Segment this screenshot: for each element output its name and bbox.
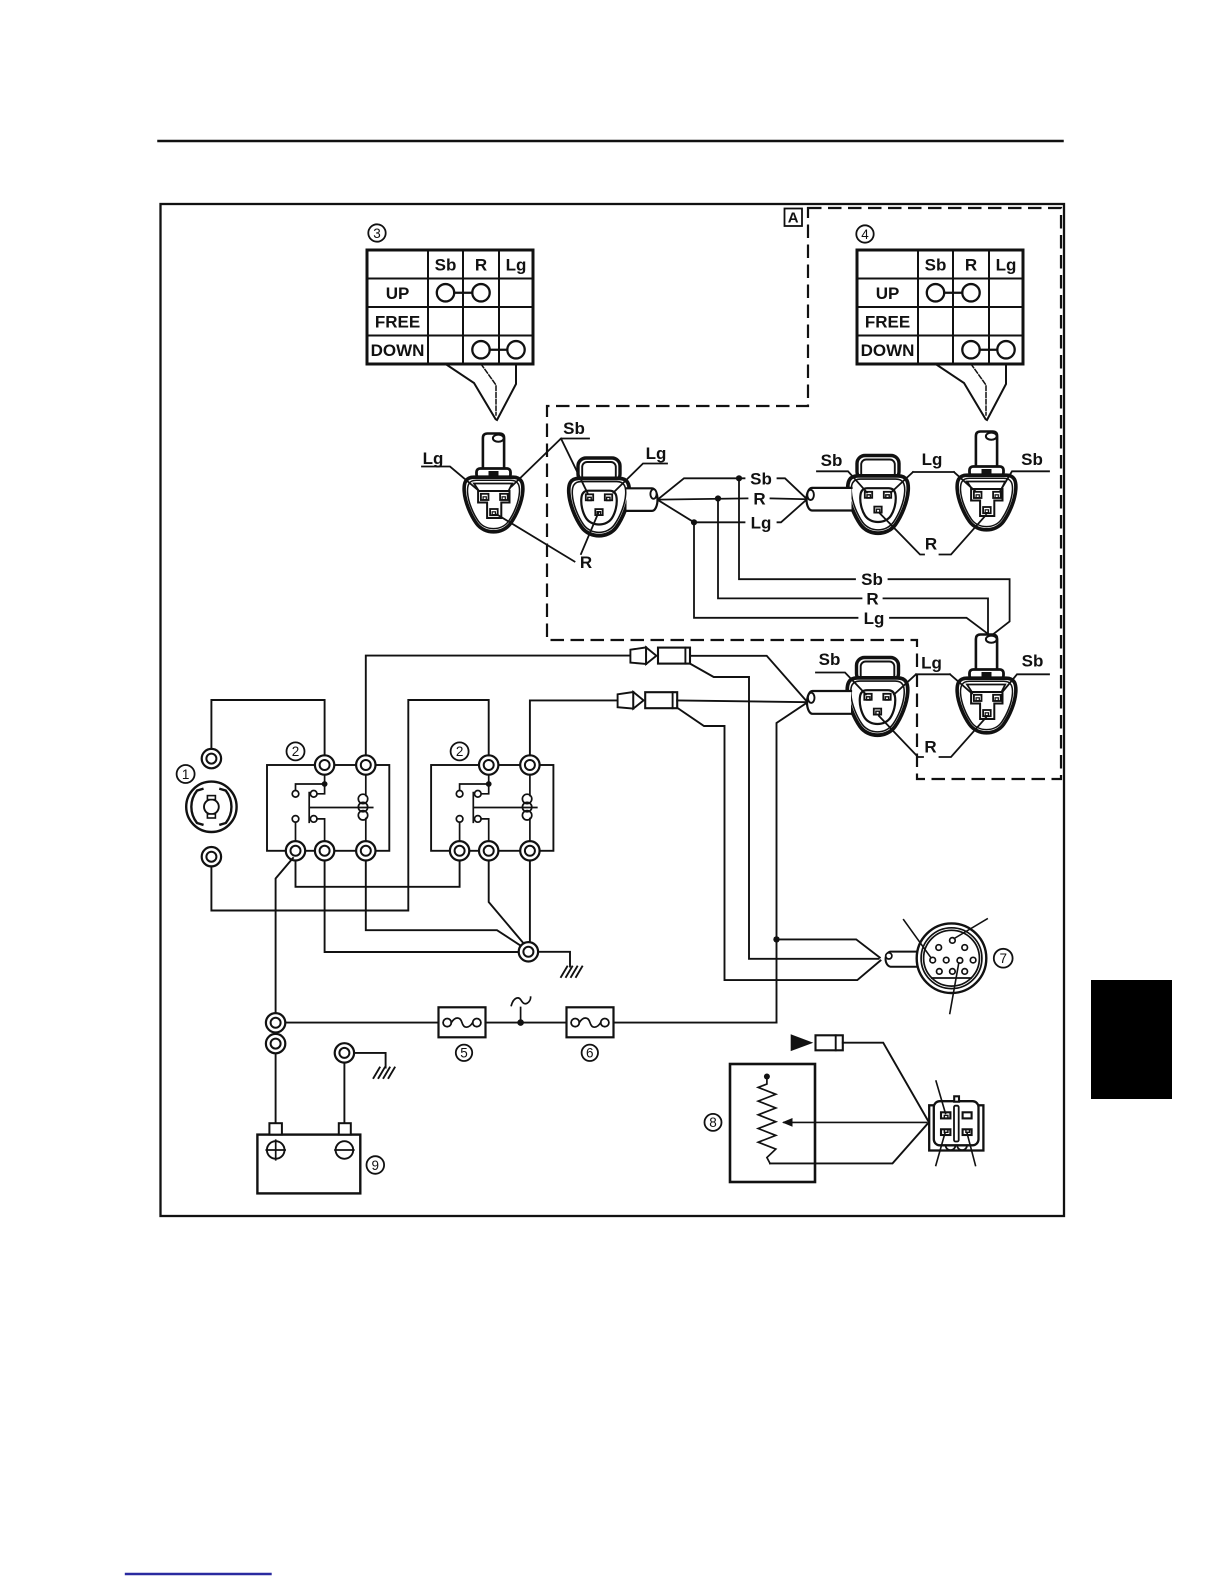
bullet connector B1	[630, 647, 646, 664]
connector (trim switch) C1	[464, 434, 523, 532]
svg-text:Lg: Lg	[423, 449, 444, 468]
trim sender connector plug	[929, 1081, 983, 1166]
dashed enclosure A	[547, 208, 1061, 779]
wire: relay K1 out to bullet 1	[366, 656, 630, 756]
svg-text:R: R	[475, 256, 487, 275]
connector C5	[847, 658, 908, 736]
bullet connector B2	[618, 692, 634, 709]
connector C2	[569, 458, 630, 536]
wire: relay bottoms cross-link	[296, 861, 460, 887]
svg-text:FREE: FREE	[865, 313, 910, 332]
svg-text:6: 6	[586, 1046, 594, 1061]
switch table 4	[856, 225, 1023, 420]
fuse F5	[439, 1007, 486, 1037]
wire: fuse6 to riser	[614, 1022, 777, 1024]
diagram frame	[161, 204, 1065, 1216]
relay box	[287, 742, 305, 760]
relay armature	[473, 793, 537, 823]
wire: bullet3 to sender plug	[843, 1043, 929, 1122]
sender plug pin leaders	[936, 1081, 976, 1166]
wire: relay K1 bottom-left to battery feed	[276, 858, 293, 1013]
svg-text:R: R	[866, 589, 878, 608]
switch table 3	[367, 224, 533, 420]
wire: relay K2 mid to ground point	[489, 861, 525, 946]
relay terminals	[479, 755, 498, 774]
wire: joint to fuse 5	[285, 1022, 438, 1024]
junction to other circuit	[517, 1019, 524, 1026]
wire: bullet1 branch down to connector 7	[690, 664, 879, 959]
svg-text:Lg: Lg	[506, 256, 527, 275]
junction R	[715, 495, 721, 501]
relay terminals	[315, 755, 334, 774]
svg-text:Sb: Sb	[821, 451, 843, 470]
wire to engine ground	[538, 952, 570, 967]
svg-text:DOWN: DOWN	[371, 341, 425, 360]
junction Lg	[691, 519, 697, 525]
svg-text:5: 5	[460, 1046, 468, 1061]
svg-text:Sb: Sb	[435, 256, 457, 275]
svg-text:Sb: Sb	[819, 650, 841, 669]
wire: key switch bottom to relay K2	[211, 700, 488, 911]
svg-text:Sb: Sb	[1022, 652, 1044, 671]
svg-text:2: 2	[456, 744, 464, 759]
key switch U1	[177, 749, 237, 867]
wire cylinder of C3	[807, 488, 852, 511]
wire Lg (C2 to C3)	[659, 500, 807, 523]
relay box	[451, 742, 469, 760]
relay K2	[431, 742, 553, 860]
wire Sb drop to lower run	[739, 478, 1010, 635]
connector C3	[848, 456, 909, 534]
connector C4	[957, 432, 1016, 530]
relay coil	[529, 765, 531, 850]
svg-text:R: R	[753, 489, 765, 508]
svg-text:R: R	[965, 256, 977, 275]
branch squiggle (to other circuit)	[511, 997, 530, 1022]
svg-text:1: 1	[182, 767, 190, 782]
wire Sb (C2 to C3)	[659, 478, 807, 498]
svg-text:Lg: Lg	[922, 450, 943, 469]
svg-text:FREE: FREE	[375, 313, 420, 332]
ground symbol (battery)	[374, 1068, 395, 1079]
svg-text:Lg: Lg	[864, 609, 885, 628]
ground symbol (engine)	[561, 967, 582, 978]
svg-text:Lg: Lg	[921, 654, 942, 673]
wiper arrow	[784, 1121, 927, 1123]
wire: ground terminal to battery minus	[343, 1063, 345, 1124]
svg-text:Lg: Lg	[646, 444, 667, 463]
svg-text:4: 4	[861, 227, 869, 242]
black page tab	[1091, 980, 1172, 1099]
wire Lg drop to lower run	[694, 522, 990, 635]
svg-text:Sb: Sb	[1021, 450, 1043, 469]
svg-text:3: 3	[373, 226, 381, 241]
svg-text:UP: UP	[876, 284, 900, 303]
wire: bullet2 to C5 cylinder	[677, 700, 807, 702]
wire: ground terminal to boat ground	[354, 1053, 385, 1068]
wire: resistor bottom to sender plug	[770, 1123, 928, 1164]
resistor element	[758, 1080, 776, 1164]
svg-text:2: 2	[292, 744, 300, 759]
relay armature	[309, 793, 373, 823]
svg-text:R: R	[580, 553, 592, 572]
battery cable joint (stacked terminals)	[266, 1013, 285, 1032]
svg-text:Sb: Sb	[861, 570, 883, 589]
relay K1	[267, 742, 389, 860]
battery ground terminal	[335, 1043, 354, 1062]
relay internal contacts	[296, 765, 325, 794]
wire: key switch top to relay K1	[211, 700, 324, 755]
trim sender resistor R8	[705, 1064, 929, 1182]
battery BT9	[257, 1123, 384, 1193]
svg-text:R: R	[924, 738, 936, 757]
wire: bullet1 to C5 cylinder	[690, 656, 807, 702]
blue footer rule	[126, 1573, 271, 1575]
wire cylinder of C2	[627, 488, 658, 511]
fuse F6	[567, 1007, 614, 1037]
wire: relay K2 right to ground point	[529, 861, 531, 942]
connector C6	[957, 635, 1016, 733]
wire: bullet2 branch down to connector 7	[677, 708, 880, 980]
wire: fuse5 to fuse6	[486, 1022, 567, 1024]
svg-text:Sb: Sb	[925, 256, 947, 275]
svg-text:DOWN: DOWN	[861, 341, 915, 360]
relay coil	[365, 765, 367, 850]
relay internal contacts	[460, 765, 489, 794]
connector 7 pin leaders	[904, 919, 988, 1014]
node A label	[785, 209, 803, 227]
connector J7 (round multipin)	[886, 919, 1013, 1014]
wire cylinder of C5	[807, 691, 851, 714]
wire: joint to battery plus	[275, 1053, 277, 1123]
callout funnel under table 3	[446, 364, 496, 419]
wire: relay K1 right to ground point	[366, 861, 522, 947]
svg-text:A: A	[788, 210, 799, 227]
junction on riser	[773, 936, 779, 942]
svg-text:Sb: Sb	[563, 419, 585, 438]
svg-text:9: 9	[372, 1158, 380, 1173]
wire: relay K1 mid to ground point	[325, 861, 519, 953]
page header rule	[159, 140, 1063, 143]
wire: riser branch to connector 7	[777, 939, 880, 957]
svg-text:7: 7	[999, 951, 1007, 966]
svg-text:Lg: Lg	[751, 513, 772, 532]
svg-text:R: R	[925, 535, 937, 554]
callout funnel under table 4	[936, 364, 986, 419]
wire R (C2 to C3)	[659, 498, 807, 499]
svg-text:Lg: Lg	[996, 256, 1017, 275]
wire R drop to lower run	[718, 499, 988, 635]
ground collector terminal	[519, 942, 538, 961]
wire: relay K2 out to bullet 2	[530, 700, 617, 755]
wire: fuse line riser to C5 cylinder	[777, 703, 807, 1023]
bullet connector B3 (filled)	[791, 1034, 814, 1051]
svg-text:Sb: Sb	[750, 469, 772, 488]
junction Sb	[736, 475, 742, 481]
svg-text:8: 8	[709, 1115, 717, 1130]
svg-text:UP: UP	[386, 284, 410, 303]
